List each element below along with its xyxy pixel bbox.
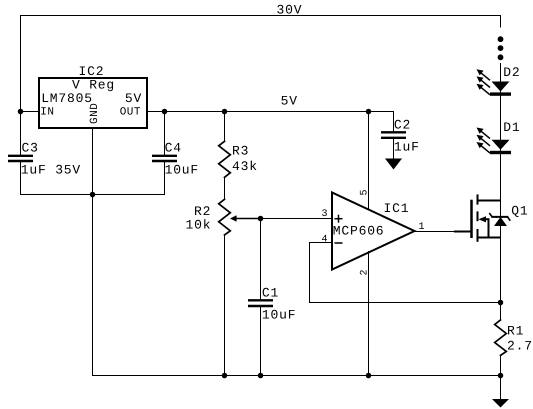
resistor R3 zigzag [219, 141, 231, 177]
svg-text:10k: 10k [186, 217, 212, 232]
wire C4 top lead [164, 112, 166, 155]
wire IN stub to IC2 [21, 111, 40, 113]
ground symbol bottom right [492, 399, 509, 408]
wire R2 bottom lead [224, 235, 226, 376]
svg-text:5V: 5V [281, 93, 298, 108]
capacitor C3 [8, 156, 33, 161]
op-amp + sign [335, 215, 343, 223]
wire opamp output to gate [415, 231, 455, 233]
resistor R1 zigzag [495, 320, 507, 355]
LED D1 [477, 128, 512, 155]
svg-text:2: 2 [360, 269, 371, 275]
wire C1 bottom lead [260, 307, 262, 375]
gate bar [470, 200, 473, 238]
wire R3 top lead [224, 112, 226, 142]
svg-text:MCP606: MCP606 [333, 224, 385, 239]
svg-text:C2: C2 [394, 117, 411, 132]
wire C4 bottom lead [164, 162, 166, 194]
svg-text:C1: C1 [262, 285, 279, 300]
svg-text:C4: C4 [165, 141, 182, 156]
svg-text:LM7805: LM7805 [41, 91, 93, 106]
wire bottom-left rail C3 to C4 [21, 194, 165, 196]
svg-text:C3: C3 [22, 141, 39, 156]
node ellipsis dot 3 [498, 54, 504, 60]
channel segment middle [477, 211, 479, 221]
ground symbol at C2 [385, 159, 402, 170]
wire C2 bottom lead to ground [393, 139, 395, 159]
wire pin4 feedback [310, 243, 501, 303]
wire C2 lead from 5V rail [393, 112, 395, 132]
wire C3 top lead [20, 112, 22, 155]
svg-text:10uF: 10uF [165, 162, 199, 177]
op-amp IC1 triangle [332, 193, 415, 270]
wire OUT 5V rail [147, 111, 394, 113]
regulator IC2 box [39, 78, 147, 128]
svg-text:5V: 5V [125, 91, 142, 106]
capacitor C1 [248, 300, 273, 306]
svg-text:30V: 30V [277, 3, 303, 18]
wire ground bus bottom [93, 375, 501, 377]
svg-text:1uF: 1uF [394, 139, 420, 154]
svg-text:GND: GND [89, 103, 101, 124]
node C1 tap junction [258, 216, 264, 222]
channel segment top [477, 194, 479, 204]
node C4 top junction [162, 109, 168, 115]
transistor Q1 MOSFET [454, 194, 501, 241]
wire C3 bottom lead [20, 162, 22, 194]
svg-text:1uF 35V: 1uF 35V [21, 162, 81, 177]
wire ground lead bottom right [500, 376, 502, 400]
drain lead [478, 200, 501, 202]
LED D2 [477, 69, 512, 96]
svg-text:5: 5 [360, 189, 371, 195]
svg-text:3: 3 [322, 209, 328, 220]
bulk connection [484, 219, 489, 237]
wire wiper to pin3 [261, 218, 333, 220]
potentiometer R2 wiper arrow [230, 215, 261, 222]
svg-text:10uF: 10uF [262, 307, 296, 322]
node bus right junction [498, 373, 504, 379]
svg-text:4: 4 [322, 234, 328, 245]
svg-text:2.7: 2.7 [507, 339, 533, 354]
node pin2 bus junction [366, 373, 372, 379]
capacitor C4 [152, 156, 177, 161]
svg-text:R1: R1 [507, 324, 524, 339]
wire R1 bottom lead [500, 355, 502, 375]
wire C1 top lead [260, 219, 262, 300]
node ellipsis dot 2 [498, 45, 504, 51]
wire GND pin drop [92, 129, 94, 376]
body diode of Q1 [489, 213, 510, 226]
wire pin5 drop [368, 112, 370, 210]
node ellipsis dot 1 [498, 36, 504, 42]
node R2 bottom bus junction [222, 373, 228, 379]
svg-text:OUT: OUT [120, 106, 141, 118]
wire 30V top rail [21, 15, 501, 17]
wire LED chain vertical [500, 64, 502, 321]
node source/feedback junction [498, 300, 504, 306]
svg-text:1: 1 [419, 222, 425, 233]
node IN junction [18, 109, 24, 115]
wire R3-R2 link [224, 177, 226, 199]
svg-text:43k: 43k [232, 159, 258, 174]
gate lead [454, 231, 472, 233]
source lead [478, 237, 501, 239]
bulk arrow head [479, 216, 487, 222]
svg-text:R3: R3 [232, 144, 249, 159]
wire 30V right drop [500, 16, 502, 28]
wire pin2 drop [368, 252, 370, 376]
svg-text:IN: IN [40, 106, 54, 118]
node GND pin junction [90, 192, 96, 198]
op-amp - sign [335, 242, 343, 244]
node C1 bus junction [258, 373, 264, 379]
node pin5/C2 junction [366, 109, 372, 115]
svg-text:IC2: IC2 [79, 64, 105, 79]
potentiometer R2 zigzag [219, 199, 231, 235]
svg-text:IC1: IC1 [384, 201, 410, 216]
svg-text:D2: D2 [503, 65, 520, 80]
wire left drop from 30V to IN node [20, 16, 22, 112]
node R3 top junction [222, 109, 228, 115]
channel segment bottom [477, 229, 479, 242]
svg-text:D1: D1 [503, 120, 520, 135]
capacitor C2 [381, 132, 406, 138]
svg-text:Q1: Q1 [511, 204, 528, 219]
